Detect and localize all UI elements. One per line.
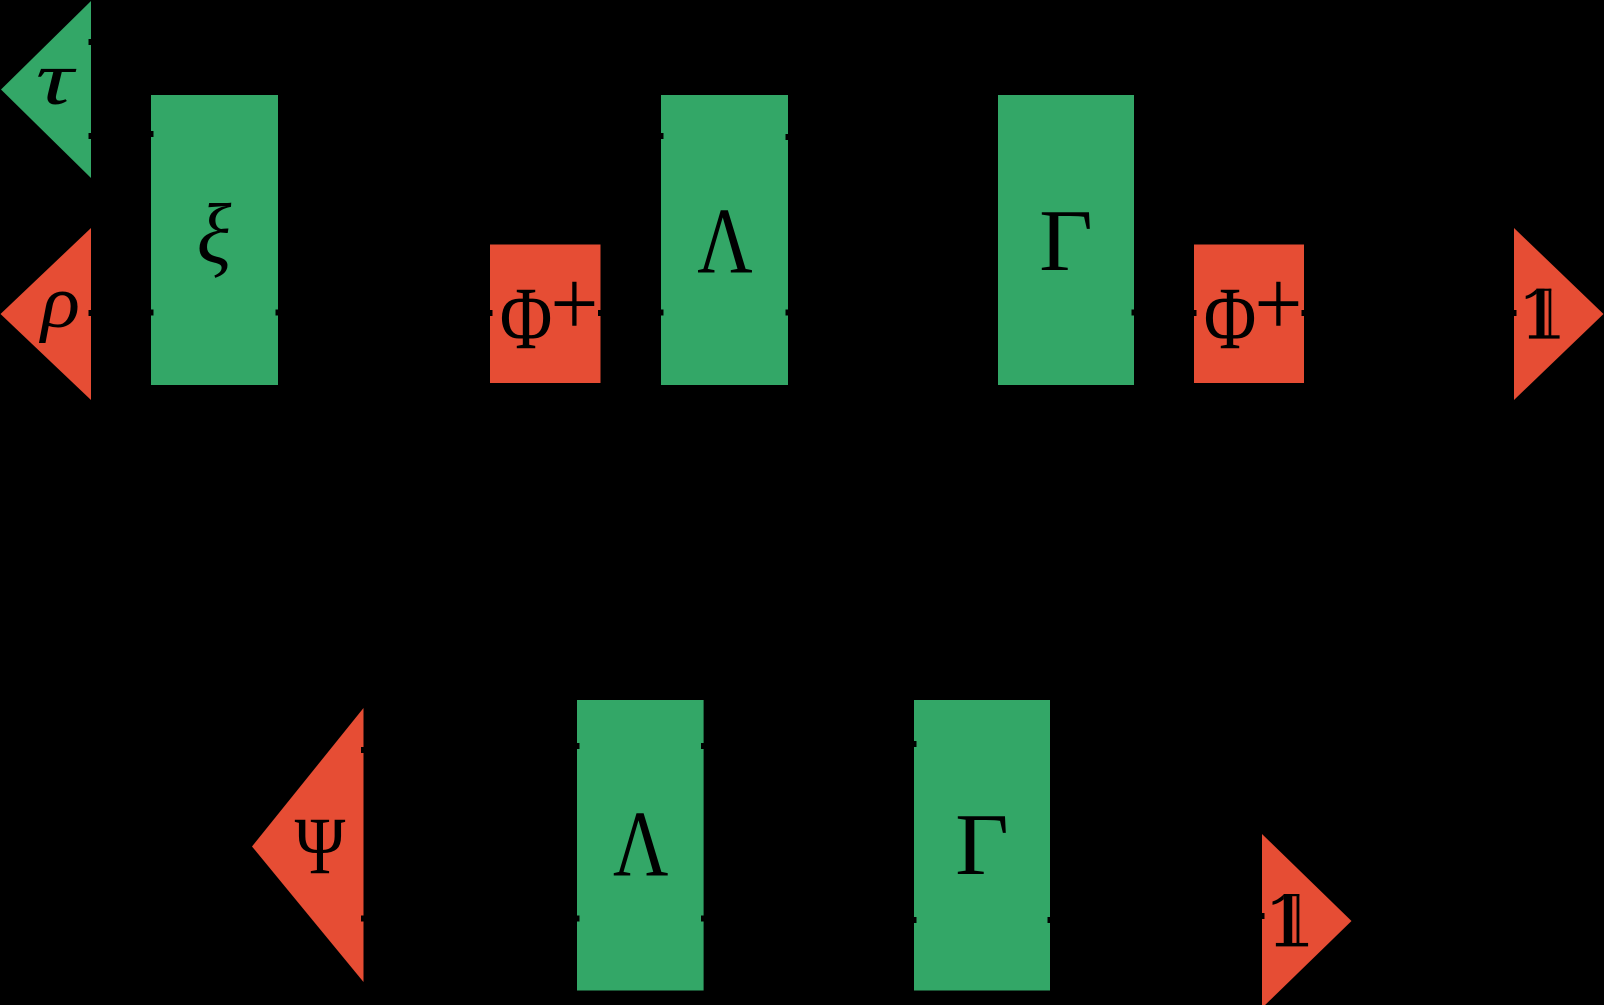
svg-text:+: + [1254,252,1302,356]
rect Gamma top (green channel) [998,95,1134,385]
rect Gamma bottom (green channel) [914,700,1050,991]
wire stub lambda-top left upper [659,133,664,139]
svg-text:Λ: Λ [697,188,752,293]
rect Lambda top (green channel) [661,95,788,385]
wire stub phi2 left [1192,310,1197,316]
label identity bottom [1273,894,1309,946]
triangle rho (red state) [1,228,92,400]
svg-text:Λ: Λ [613,791,668,896]
svg-text:Γ: Γ [955,796,1009,893]
wire stub phi2 right [1302,310,1307,316]
wire stub lambda-bottom right lower [701,916,706,922]
triangle Psi (red state, bottom row) [252,708,364,982]
triangle tau (green state) [1,1,91,178]
wire stub psi lower [361,916,366,922]
wire stub xi left upper [149,131,154,137]
rect Phi+ second (red entangled state) [1194,245,1304,384]
wire stub rho [89,310,94,316]
wire stub tau lower [89,133,94,139]
wire stub gamma-bottom left upper [912,741,917,747]
svg-text:Ψ: Ψ [295,801,346,891]
wire stub lambda-bottom left upper [575,743,580,749]
wire stub gamma-top right [1132,310,1137,316]
wire stub lambda-top right lower [786,310,791,316]
svg-text:Γ: Γ [1039,192,1093,289]
svg-text:+: + [550,252,598,356]
wire stub identity-top left [1512,310,1517,316]
rect Lambda bottom (green channel) [577,700,704,991]
svg-text:ξ: ξ [197,187,232,282]
wire stub lambda-bottom right upper [701,743,706,749]
wire stub lambda-top left lower [659,310,664,316]
wire stub lambda-top right upper [786,134,791,140]
rect xi (green isometry) [151,95,278,385]
label identity top [1526,289,1560,339]
svg-text:ρ: ρ [39,259,80,343]
svg-text:Φ: Φ [500,270,553,368]
svg-text:Φ: Φ [1204,270,1257,368]
triangle identity bottom (red) [1262,834,1352,1005]
wire stub gamma-bottom left lower [912,917,917,923]
wire stub gamma-bottom right [1048,917,1053,923]
wire stub tau upper [89,39,94,45]
wire stub phi1 right [598,310,603,316]
rect Phi+ first (red entangled state) [490,245,601,384]
wire stub identity-bottom left [1260,913,1265,919]
wire stub phi1 left [488,310,493,316]
wire stub psi upper [361,747,366,753]
wire stub lambda-bottom left lower [575,916,580,922]
wire stub xi right lower [276,310,281,316]
triangle identity top (red) [1514,228,1604,400]
svg-text:τ: τ [36,37,77,121]
wire stub xi left lower [149,310,154,316]
